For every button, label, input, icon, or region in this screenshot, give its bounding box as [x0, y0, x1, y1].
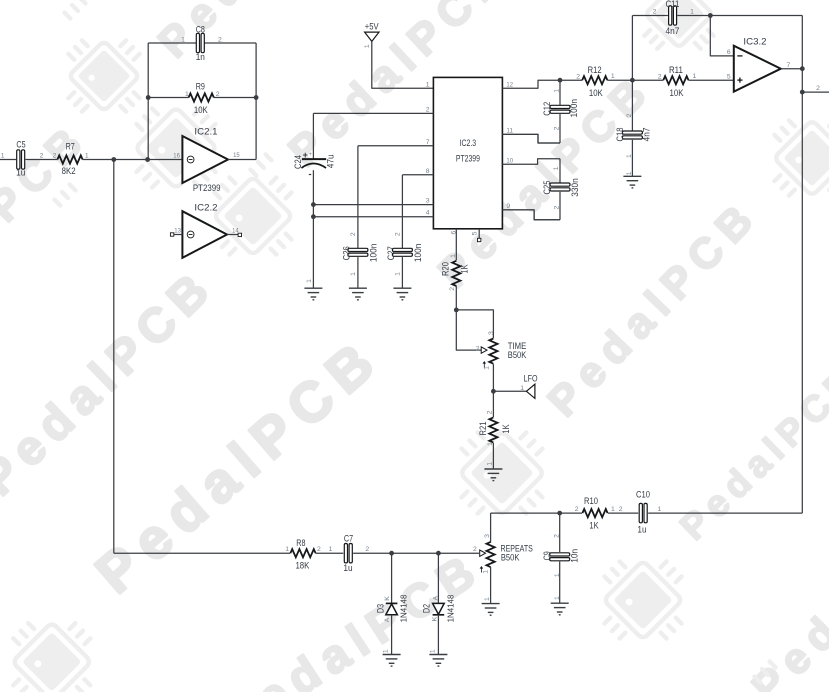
svg-text:1: 1 [329, 546, 333, 553]
svg-text:R10: R10 [584, 496, 598, 506]
svg-text:IC2.2: IC2.2 [194, 203, 217, 213]
svg-text:+5V: +5V [365, 21, 379, 31]
svg-text:1n: 1n [196, 52, 205, 62]
svg-text:100n: 100n [369, 244, 379, 263]
svg-text:IC2.1: IC2.1 [194, 126, 217, 136]
svg-text:R11: R11 [669, 65, 683, 75]
svg-text:2: 2 [449, 287, 456, 291]
svg-text:1: 1 [611, 73, 615, 80]
svg-text:2: 2 [553, 205, 560, 209]
svg-text:11: 11 [506, 127, 513, 134]
svg-text:1: 1 [484, 366, 491, 370]
svg-text:+: + [308, 152, 312, 158]
svg-text:1: 1 [483, 570, 490, 574]
svg-text:C24: C24 [293, 155, 303, 169]
svg-text:1: 1 [364, 44, 371, 48]
svg-text:1u: 1u [637, 525, 646, 535]
svg-text:1K: 1K [460, 264, 470, 273]
svg-text:1: 1 [306, 279, 313, 283]
svg-text:3: 3 [488, 331, 495, 335]
svg-text:7: 7 [426, 139, 430, 146]
svg-text:1: 1 [429, 649, 436, 653]
svg-text:1: 1 [690, 8, 694, 15]
svg-text:1: 1 [426, 81, 430, 88]
svg-text:100n: 100n [569, 99, 579, 118]
svg-text:IC2.3: IC2.3 [460, 138, 477, 148]
svg-text:1: 1 [553, 166, 560, 170]
svg-text:2: 2 [619, 506, 623, 513]
svg-text:R9: R9 [196, 82, 205, 92]
svg-text:C8: C8 [196, 24, 205, 34]
svg-text:2: 2 [575, 506, 579, 513]
svg-text:1: 1 [383, 649, 390, 653]
svg-text:R7: R7 [66, 142, 75, 152]
svg-text:2: 2 [317, 546, 321, 553]
svg-text:2: 2 [394, 232, 401, 236]
svg-text:C25: C25 [542, 181, 552, 195]
svg-text:1: 1 [185, 91, 189, 98]
svg-text:9: 9 [506, 203, 510, 210]
svg-text:1K: 1K [589, 521, 598, 531]
svg-text:D2: D2 [422, 604, 432, 613]
svg-text:C7: C7 [344, 534, 353, 544]
svg-text:1: 1 [450, 254, 457, 258]
svg-text:3: 3 [484, 534, 491, 538]
svg-text:C27: C27 [386, 246, 396, 260]
svg-text:1: 1 [487, 462, 494, 466]
svg-text:100n: 100n [413, 244, 423, 263]
svg-text:16: 16 [173, 152, 180, 159]
svg-text:1: 1 [520, 385, 524, 392]
svg-text:IC3.2: IC3.2 [743, 37, 766, 48]
svg-text:10n: 10n [570, 549, 580, 563]
svg-text:1u: 1u [16, 168, 25, 178]
svg-text:A: A [432, 595, 439, 600]
svg-text:3: 3 [426, 198, 430, 205]
svg-text:C26: C26 [342, 246, 352, 260]
svg-text:10K: 10K [589, 88, 603, 98]
svg-text:2: 2 [40, 152, 44, 159]
svg-text:4n7: 4n7 [641, 128, 651, 142]
svg-text:B50K: B50K [501, 552, 520, 562]
svg-text:10K: 10K [670, 88, 684, 98]
svg-text:2: 2 [476, 346, 480, 353]
svg-text:A: A [384, 617, 391, 622]
svg-text:2: 2 [816, 85, 820, 92]
svg-text:1: 1 [611, 506, 615, 513]
svg-text:B50K: B50K [508, 350, 527, 360]
svg-text:K: K [432, 616, 439, 621]
svg-text:4n7: 4n7 [665, 26, 679, 36]
svg-text:5: 5 [471, 231, 478, 235]
svg-text:2: 2 [554, 126, 561, 130]
svg-text:C12: C12 [542, 102, 552, 116]
svg-text:2: 2 [653, 8, 657, 15]
svg-text:2: 2 [487, 410, 494, 414]
svg-text:1: 1 [554, 596, 561, 600]
svg-text:2: 2 [658, 73, 662, 80]
svg-text:5: 5 [727, 73, 731, 80]
svg-text:R12: R12 [588, 65, 602, 75]
svg-text:2: 2 [218, 36, 222, 43]
svg-text:D3: D3 [376, 604, 386, 613]
svg-text:1: 1 [350, 272, 357, 276]
svg-text:8: 8 [426, 168, 430, 175]
svg-text:C18: C18 [615, 128, 625, 142]
svg-text:2: 2 [350, 232, 357, 236]
svg-text:1u: 1u [343, 563, 352, 573]
svg-text:R20: R20 [441, 262, 451, 276]
svg-text:1K: 1K [501, 424, 511, 433]
svg-text:LFO: LFO [524, 374, 538, 384]
svg-text:6: 6 [450, 230, 457, 234]
svg-text:2: 2 [626, 113, 633, 117]
svg-text:R21: R21 [478, 422, 488, 436]
svg-text:4: 4 [426, 210, 430, 217]
svg-text:1: 1 [85, 152, 89, 159]
svg-text:14: 14 [232, 227, 239, 234]
svg-text:2: 2 [426, 106, 430, 113]
svg-text:6: 6 [727, 49, 731, 56]
svg-text:8K2: 8K2 [62, 166, 76, 176]
svg-text:13: 13 [174, 227, 181, 234]
svg-text:7: 7 [787, 62, 791, 69]
svg-text:C5: C5 [16, 140, 25, 150]
svg-text:1: 1 [693, 73, 697, 80]
svg-text:1: 1 [1, 152, 5, 159]
svg-text:15: 15 [233, 152, 240, 159]
svg-text:1: 1 [487, 442, 494, 446]
svg-text:C9: C9 [542, 551, 552, 560]
svg-text:2: 2 [553, 534, 560, 538]
svg-text:R8: R8 [296, 538, 305, 548]
svg-text:47u: 47u [326, 154, 336, 168]
svg-text:2: 2 [365, 546, 369, 553]
svg-text:+: + [303, 150, 308, 160]
svg-text:1: 1 [394, 272, 401, 276]
svg-text:K: K [384, 596, 391, 601]
svg-text:12: 12 [506, 81, 513, 88]
svg-text:C10: C10 [636, 490, 650, 500]
svg-text:C11: C11 [665, 0, 679, 9]
svg-text:330n: 330n [570, 178, 580, 197]
svg-text:2: 2 [53, 152, 57, 159]
svg-text:1: 1 [285, 546, 289, 553]
svg-text:PT2399: PT2399 [456, 153, 480, 163]
svg-text:2: 2 [576, 73, 580, 80]
svg-text:1: 1 [626, 154, 633, 158]
svg-text:18K: 18K [295, 561, 309, 571]
svg-text:2: 2 [473, 546, 477, 553]
svg-text:1: 1 [658, 506, 662, 513]
svg-text:10K: 10K [194, 105, 208, 115]
svg-text:2: 2 [216, 91, 220, 98]
svg-text:10: 10 [506, 157, 513, 164]
svg-text:PT2399: PT2399 [193, 183, 221, 193]
svg-text:1: 1 [626, 171, 633, 175]
svg-text:1: 1 [181, 36, 185, 43]
svg-text:1N4148: 1N4148 [446, 594, 456, 622]
svg-text:1: 1 [484, 597, 491, 601]
svg-text:1: 1 [554, 573, 561, 577]
svg-text:1N4148: 1N4148 [399, 594, 409, 622]
svg-text:1: 1 [554, 89, 561, 93]
